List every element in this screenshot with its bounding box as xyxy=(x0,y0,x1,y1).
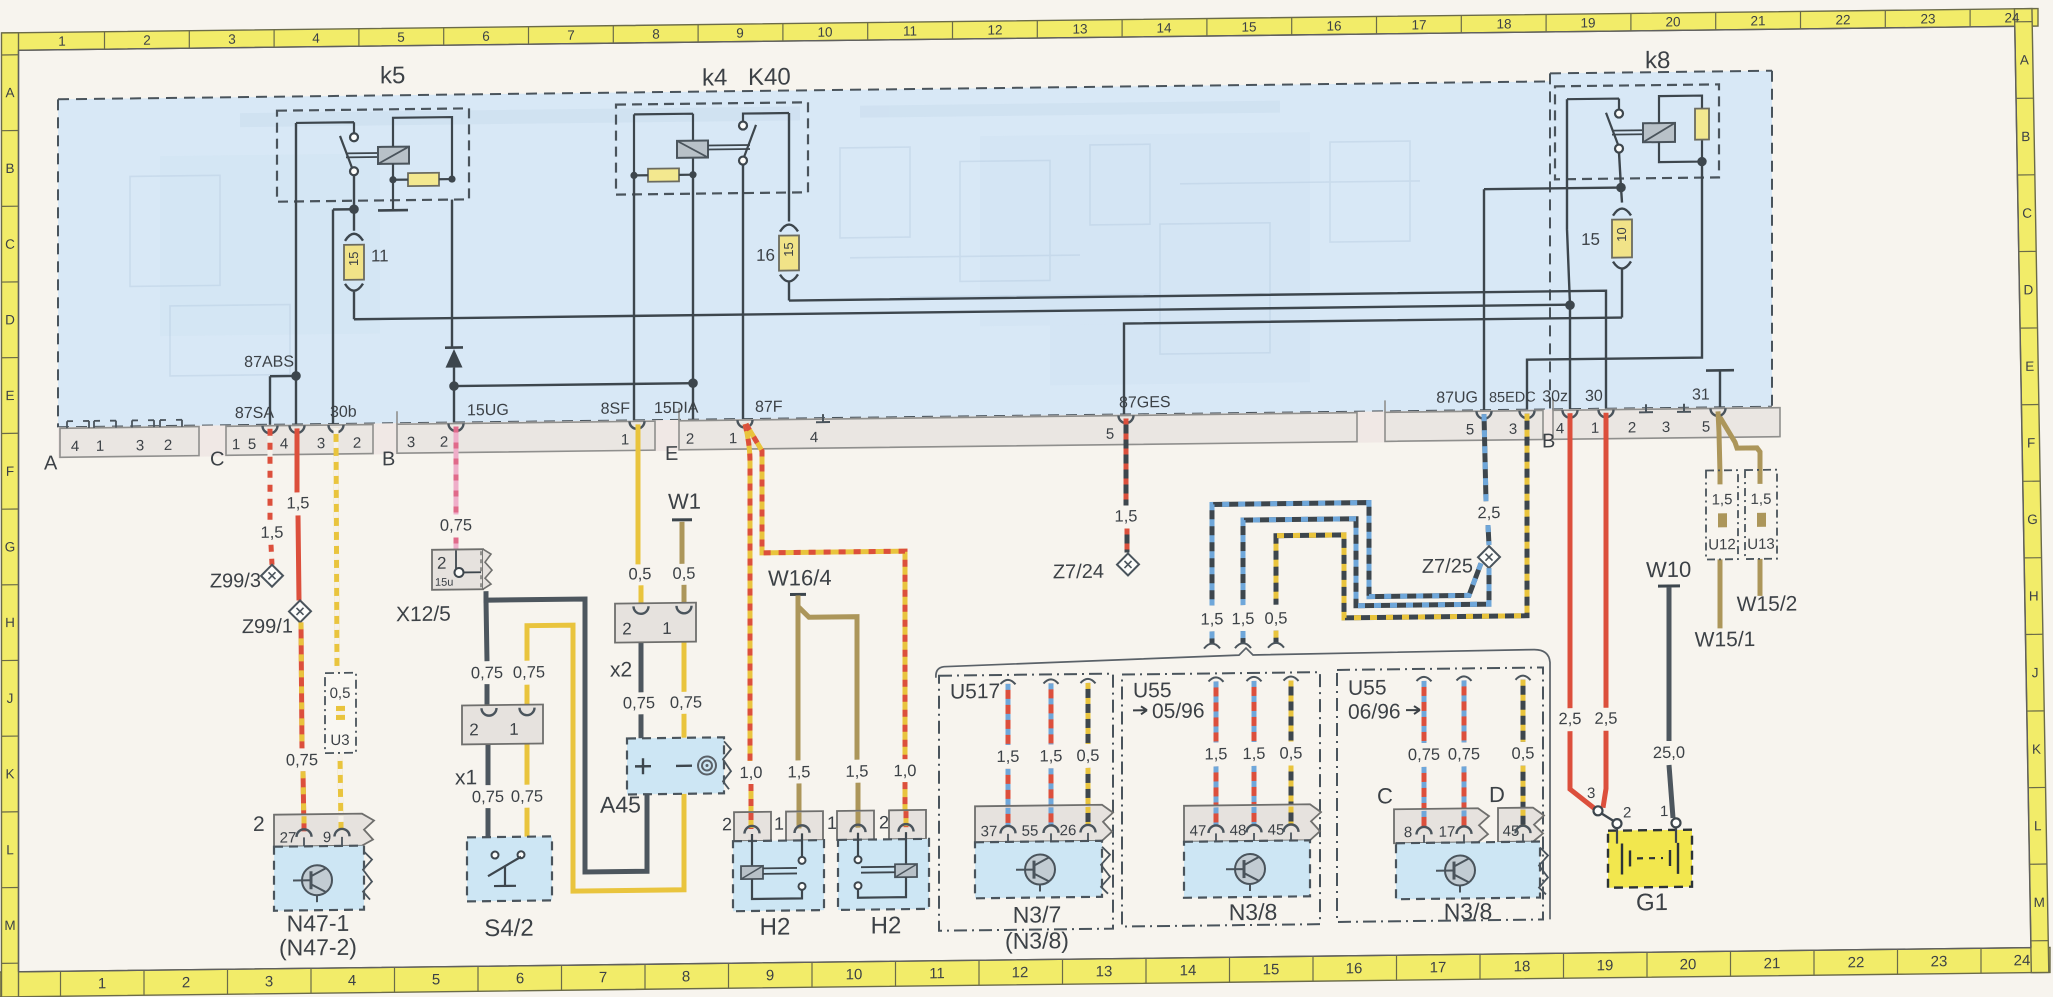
svg-text:x1: x1 xyxy=(455,766,477,789)
connector x2 xyxy=(610,603,696,682)
svg-text:U55: U55 xyxy=(1348,676,1387,699)
svg-text:23: 23 xyxy=(1931,953,1948,970)
svg-text:2: 2 xyxy=(686,431,694,448)
svg-text:24: 24 xyxy=(2014,952,2031,969)
svg-text:U3: U3 xyxy=(330,732,349,749)
svg-text:4: 4 xyxy=(1556,420,1564,437)
svg-text:3: 3 xyxy=(1509,421,1517,438)
wire W16/4 tan branch left 1.5 xyxy=(798,595,799,827)
relay K40 switch contact xyxy=(708,113,789,165)
svg-text:D: D xyxy=(5,312,15,327)
svg-text:22: 22 xyxy=(1848,954,1865,971)
frame left band xyxy=(2,33,19,997)
svg-text:3: 3 xyxy=(1587,785,1595,802)
svg-text:1: 1 xyxy=(774,814,784,834)
value label 1,5 (C4) xyxy=(287,494,310,512)
svg-text:0,75: 0,75 xyxy=(511,787,543,805)
svg-text:0,75: 0,75 xyxy=(1448,745,1480,763)
label G1 xyxy=(1636,889,1668,916)
frame bottom band xyxy=(0,947,2050,997)
svg-text:N3/8: N3/8 xyxy=(1229,899,1278,926)
svg-text:E: E xyxy=(2025,359,2034,374)
svg-text:5: 5 xyxy=(1702,418,1710,435)
wire U13 segment 1.5 xyxy=(1758,471,1763,596)
wire k5 fuse output bus xyxy=(354,305,1570,320)
svg-text:14: 14 xyxy=(1180,962,1197,979)
terminal label 87F xyxy=(755,399,783,416)
wire k8 switch common / junction 87UG xyxy=(1484,153,1625,412)
svg-text:5: 5 xyxy=(1106,426,1114,443)
svg-text:9: 9 xyxy=(766,967,774,984)
svg-text:2: 2 xyxy=(1628,419,1636,436)
terminal 31 antenna symbol xyxy=(1706,370,1734,408)
svg-text:U55: U55 xyxy=(1133,679,1172,702)
svg-text:3: 3 xyxy=(136,437,144,454)
svg-text:11: 11 xyxy=(371,246,389,265)
svg-text:0,75: 0,75 xyxy=(623,694,655,712)
svg-text:1: 1 xyxy=(96,438,104,455)
module box U55 06/96 xyxy=(1337,667,1543,921)
label N3/7 xyxy=(1013,901,1062,928)
svg-text:5: 5 xyxy=(397,30,405,45)
svg-text:26: 26 xyxy=(1060,822,1077,839)
svg-text:M: M xyxy=(4,918,15,933)
terminal label 30 xyxy=(1585,388,1603,405)
svg-text:23: 23 xyxy=(1920,11,1935,26)
svg-text:06/96: 06/96 xyxy=(1348,700,1401,724)
svg-text:7: 7 xyxy=(567,28,575,43)
value label 2,5 (87UG) xyxy=(1478,504,1501,522)
svg-text:1: 1 xyxy=(621,431,629,448)
svg-text:2: 2 xyxy=(143,33,151,48)
svg-text:21: 21 xyxy=(1764,955,1781,972)
svg-text:15: 15 xyxy=(1581,230,1600,249)
svg-text:3: 3 xyxy=(407,434,415,451)
value label 0,75 (x1.2) xyxy=(471,664,503,682)
svg-text:Z99/1: Z99/1 xyxy=(242,615,293,638)
svg-text:8SF: 8SF xyxy=(601,400,631,417)
svg-text:1,5: 1,5 xyxy=(1232,610,1255,628)
svg-text:M: M xyxy=(2034,895,2045,910)
frame right band xyxy=(2014,9,2048,973)
wire U12 segment 1.5 xyxy=(1718,471,1723,628)
svg-text:2: 2 xyxy=(469,720,478,739)
svg-text:S4/2: S4/2 xyxy=(484,915,533,943)
svg-text:2: 2 xyxy=(437,554,446,573)
svg-text:W15/1: W15/1 xyxy=(1695,628,1756,652)
relay k8 zone dashed outline xyxy=(1550,71,1772,410)
wire U55b.1 red/blue 0.75 xyxy=(1417,677,1432,825)
connector C label xyxy=(1377,783,1393,808)
svg-text:2: 2 xyxy=(182,974,190,991)
svg-text:13: 13 xyxy=(1072,21,1087,36)
STRIP xyxy=(44,386,1780,475)
value label 1,5 (87GES) xyxy=(1115,507,1138,525)
node 87ABS xyxy=(270,372,300,425)
svg-text:A: A xyxy=(5,85,14,100)
relay k8 switch contact xyxy=(1567,98,1643,153)
value label 0,75 (U55b.2) xyxy=(1448,745,1480,763)
relay k5 resistor xyxy=(389,173,455,187)
label N3/8 a xyxy=(1229,899,1278,926)
value label 0,5 (U55b.3) xyxy=(1512,745,1535,763)
wire 85EDC black/yellow 0.5 xyxy=(1268,414,1527,648)
svg-text:B: B xyxy=(2021,129,2030,144)
svg-text:3: 3 xyxy=(265,973,273,990)
frame top band cell ticks xyxy=(105,9,1971,49)
svg-text:x2: x2 xyxy=(610,658,632,681)
relay k4 resistor xyxy=(630,168,696,182)
value label 1,5 (U55a.1) xyxy=(1205,745,1228,763)
svg-text:9: 9 xyxy=(736,26,744,41)
wire 87GES black/red 1.5 xyxy=(1126,418,1127,552)
label H2 right xyxy=(871,912,902,939)
transistor symbol N3/8 b xyxy=(1436,855,1475,892)
svg-text:K: K xyxy=(5,766,14,781)
svg-text:13: 13 xyxy=(1096,963,1113,980)
svg-text:27: 27 xyxy=(280,829,297,846)
svg-text:1: 1 xyxy=(58,34,66,49)
value label 1,5 (H2 left) xyxy=(788,763,811,781)
svg-text:45: 45 xyxy=(1268,822,1285,839)
wire K40 fuse output to terminal 30 xyxy=(789,291,1606,420)
svg-text:55: 55 xyxy=(1022,823,1039,840)
svg-text:G: G xyxy=(2027,512,2038,527)
fuse box X12/5 xyxy=(396,549,492,626)
wire 30 red 2.5 xyxy=(1603,413,1606,808)
value label 0,5 (W1) xyxy=(673,565,696,583)
value label 25,0 (W10) xyxy=(1653,744,1685,762)
splice Z99/3 xyxy=(210,565,283,593)
svg-text:0,5: 0,5 xyxy=(1280,744,1303,762)
splice Z7/24 xyxy=(1053,553,1139,583)
value label 1,5 (87SA) xyxy=(261,524,284,542)
svg-text:4: 4 xyxy=(810,429,818,446)
svg-text:6: 6 xyxy=(516,970,524,987)
connector strip N3/8 b C xyxy=(1394,808,1489,848)
svg-text:1: 1 xyxy=(1591,420,1599,437)
fuse 15 (10A) in k8 branch xyxy=(1612,208,1632,317)
connector strip N3/7 xyxy=(975,805,1113,848)
value label 0,5 (85EDC) xyxy=(1265,610,1288,628)
svg-text:D: D xyxy=(2024,282,2034,297)
svg-text:F: F xyxy=(2027,435,2035,450)
frame top band numbers xyxy=(58,10,2020,49)
svg-text:J: J xyxy=(7,691,14,706)
svg-text:21: 21 xyxy=(1750,13,1765,28)
wire U517.2 red/blue 1.5 xyxy=(1044,679,1059,825)
svg-text:H2: H2 xyxy=(760,914,791,941)
svg-text:Z7/24: Z7/24 xyxy=(1053,561,1104,584)
svg-text:G: G xyxy=(5,539,16,554)
svg-text:17: 17 xyxy=(1411,17,1426,32)
battery G1 xyxy=(1608,803,1692,888)
relay k5 coil wiring xyxy=(393,117,452,209)
svg-text:k8: k8 xyxy=(1645,47,1670,74)
svg-text:2,5: 2,5 xyxy=(1559,710,1582,728)
svg-text:H: H xyxy=(5,615,15,630)
relay k4/K40 labels xyxy=(702,64,791,92)
terminal label 31 xyxy=(1692,386,1710,403)
svg-text:87SA: 87SA xyxy=(235,405,274,422)
transistor symbol N47 xyxy=(293,865,332,902)
value label 1,5 (H2 right) xyxy=(846,763,869,781)
value label 1,5 (U517.2) xyxy=(1040,747,1063,765)
wire U55a.1 red/blue 1.5 xyxy=(1209,677,1224,823)
module box U517 xyxy=(939,674,1113,931)
label 87ABS xyxy=(244,353,294,371)
svg-text:05/96: 05/96 xyxy=(1152,700,1205,724)
diode in 15UG branch xyxy=(445,199,463,385)
svg-text:0,75: 0,75 xyxy=(472,788,504,806)
control module N47-1 box xyxy=(274,846,372,911)
coupler U13 xyxy=(1745,470,1777,559)
svg-text:18: 18 xyxy=(1496,16,1511,31)
relay k4 coil xyxy=(677,141,708,158)
svg-text:Z99/3: Z99/3 xyxy=(210,570,261,593)
svg-text:L: L xyxy=(2034,818,2042,833)
connector strip N47 xyxy=(274,814,374,852)
relay k8 resistor (vertical) xyxy=(1695,108,1709,139)
svg-text:1: 1 xyxy=(662,619,671,638)
wire U55b.3 black/yellow 0.5 xyxy=(1516,676,1531,824)
terminal label 8SF xyxy=(601,400,631,417)
wire x1.1 yellow loop to A45 minus xyxy=(527,624,684,892)
fuse 15 designator xyxy=(1581,230,1600,249)
svg-text:11: 11 xyxy=(903,23,917,38)
svg-text:4: 4 xyxy=(280,436,288,453)
wire 87F left yellow/red 1.0 xyxy=(745,424,751,828)
svg-text:30b: 30b xyxy=(330,404,357,421)
svg-text:1,5: 1,5 xyxy=(287,494,310,512)
svg-text:k4: k4 xyxy=(702,64,727,91)
value label 1,0 (H2 right) xyxy=(894,762,917,780)
diagnosis unit A45 xyxy=(627,737,731,794)
label A45 xyxy=(600,791,641,817)
svg-text:K40: K40 xyxy=(748,64,791,92)
wire U55a.2 red/blue 1.5 xyxy=(1247,677,1262,823)
relay k5 coil ground xyxy=(378,209,408,212)
connector block B xyxy=(382,408,655,470)
relay k8 coil xyxy=(1643,123,1675,142)
value label 0,5 (U517.3) xyxy=(1077,747,1100,765)
svg-text:B: B xyxy=(1542,430,1555,452)
fuse 11 rating text xyxy=(346,251,361,266)
value label 0,75 (S4/2 left) xyxy=(472,788,504,806)
fuse 16 designator xyxy=(756,246,775,265)
wire X12/5 to x1.2 dark loop xyxy=(486,589,647,873)
wire U517.3 black/yellow 0.5 xyxy=(1081,679,1096,825)
fuse 11 (15A) in k5 branch xyxy=(344,175,364,319)
wire U517.1 red/blue 1.5 xyxy=(1001,680,1016,826)
svg-text:4: 4 xyxy=(312,31,320,46)
label (N3/8) xyxy=(1005,927,1069,954)
svg-text:D: D xyxy=(1489,782,1505,807)
value label 0,75 (x1.1) xyxy=(513,663,545,681)
svg-text:G1: G1 xyxy=(1636,889,1668,916)
svg-text:1,5: 1,5 xyxy=(1751,491,1772,508)
svg-text:U13: U13 xyxy=(1747,536,1775,553)
control module N3/8 a box xyxy=(1184,840,1310,898)
relay k8 coil wiring xyxy=(1659,96,1706,166)
value label 2,5 (30) xyxy=(1595,710,1618,728)
value label 1,5 (branch B) xyxy=(1232,610,1255,628)
connector block A xyxy=(44,420,199,475)
frame bottom band numbers xyxy=(98,952,2031,992)
terminal label 87UG xyxy=(1436,389,1478,407)
svg-text:5: 5 xyxy=(248,436,256,453)
splice Z99/1 xyxy=(242,600,311,638)
value label 0,75 (15UG) xyxy=(440,516,472,534)
svg-text:3: 3 xyxy=(317,435,325,452)
control module N3/8 b box xyxy=(1396,841,1548,899)
svg-text:2: 2 xyxy=(253,813,265,836)
svg-text:10: 10 xyxy=(846,966,863,983)
relay k8 label xyxy=(1645,47,1670,74)
svg-text:20: 20 xyxy=(1680,956,1697,973)
wire x1.2 feed dark 0.75 xyxy=(486,600,487,708)
svg-text:A: A xyxy=(2020,52,2029,67)
svg-text:2,5: 2,5 xyxy=(1595,710,1618,728)
connector block E xyxy=(665,400,1357,465)
splice Z7/25 xyxy=(1422,546,1500,578)
svg-text:2: 2 xyxy=(622,619,631,638)
junction 30z / k5 bus xyxy=(1566,302,1573,309)
wire x1.2 to S4/2 dark 0.75 xyxy=(486,723,491,837)
wire x2.1 to A45 minus yellow 0.75 xyxy=(682,621,687,738)
svg-text:1: 1 xyxy=(827,813,837,833)
wire 87F vertical xyxy=(742,165,744,420)
wire W16/4 tan branch right 1.5 xyxy=(798,606,858,828)
wire 8SF yellow 0.5 xyxy=(638,424,641,605)
antenna W10 xyxy=(1646,557,1691,587)
connector D label xyxy=(1489,782,1505,807)
svg-text:2: 2 xyxy=(1623,804,1631,821)
value label 0,5 (U55a.3) xyxy=(1280,744,1303,762)
svg-text:15UG: 15UG xyxy=(467,402,509,420)
svg-text:15: 15 xyxy=(346,251,361,266)
svg-text:8: 8 xyxy=(682,968,690,985)
svg-text:20: 20 xyxy=(1665,14,1680,29)
svg-text:9: 9 xyxy=(323,829,331,846)
terminal label 15DIA xyxy=(654,400,699,418)
svg-text:1,5: 1,5 xyxy=(1040,747,1063,765)
svg-text:17: 17 xyxy=(1439,824,1456,841)
wire terminal 31 tan to U12/U13 xyxy=(1718,411,1760,474)
svg-text:16: 16 xyxy=(756,246,775,265)
relay k5 switch contact xyxy=(296,122,378,176)
value label 1,5 (branch A) xyxy=(1201,610,1224,628)
svg-text:F: F xyxy=(6,464,14,479)
wire 87UG black/blue 2.5 xyxy=(1484,414,1489,545)
wire 85EDC from k8 coil xyxy=(1527,162,1702,411)
svg-text:E: E xyxy=(5,388,14,403)
svg-text:1,5: 1,5 xyxy=(1205,745,1228,763)
svg-text:X12/5: X12/5 xyxy=(396,603,451,627)
relay k8 inner dashed box xyxy=(1555,84,1719,179)
wire W1 tan 0.5 xyxy=(682,522,684,605)
connector strip N3/8 b D xyxy=(1498,807,1544,847)
svg-text:16: 16 xyxy=(1346,960,1363,977)
svg-text:3: 3 xyxy=(228,32,236,47)
svg-text:C: C xyxy=(2022,206,2032,221)
wire x2.2 to A45 plus dark 0.75 xyxy=(639,621,644,738)
svg-text:H2: H2 xyxy=(871,912,902,939)
coupler U3 xyxy=(325,673,356,753)
svg-text:5: 5 xyxy=(1466,421,1474,438)
wire Z7/25 branch A black/blue 1.5 xyxy=(1204,501,1481,648)
antenna W15/1 label xyxy=(1695,628,1756,652)
svg-text:1: 1 xyxy=(98,975,106,992)
terminal label 87SA xyxy=(235,405,274,422)
svg-text:0,5: 0,5 xyxy=(1077,747,1100,765)
svg-text:0,75: 0,75 xyxy=(286,751,318,769)
relay k4 dashed box xyxy=(616,102,808,194)
connector block B right xyxy=(1542,396,1780,453)
svg-text:A: A xyxy=(44,452,58,474)
value label 1,5 (U517.1) xyxy=(997,748,1020,766)
horn H2 right box xyxy=(838,832,929,910)
svg-text:1,5: 1,5 xyxy=(1115,507,1138,525)
terminal label 30z xyxy=(1542,388,1568,405)
antenna W1 xyxy=(668,489,701,520)
svg-text:24: 24 xyxy=(2004,10,2020,25)
svg-text:W1: W1 xyxy=(668,489,701,514)
svg-text:15: 15 xyxy=(1241,19,1256,34)
svg-text:0,5: 0,5 xyxy=(1512,745,1535,763)
svg-text:3: 3 xyxy=(1662,419,1670,436)
frame bottom band cell ticks xyxy=(61,948,1982,996)
wire U55b.2 red/blue 0.75 xyxy=(1457,676,1472,824)
value label 1,5 (U55a.2) xyxy=(1243,745,1266,763)
svg-text:1: 1 xyxy=(232,436,240,453)
svg-text:85EDC: 85EDC xyxy=(1489,390,1536,407)
svg-text:Z7/25: Z7/25 xyxy=(1422,555,1473,578)
svg-text:14: 14 xyxy=(1156,20,1172,35)
value label 0,5 (8SF) xyxy=(629,565,652,583)
switch S4/2 xyxy=(467,836,552,901)
control module N3/7 box xyxy=(975,841,1110,899)
fuse 11 designator xyxy=(371,246,389,265)
svg-text:0,75: 0,75 xyxy=(1408,746,1440,764)
svg-text:B: B xyxy=(382,448,395,470)
svg-text:8: 8 xyxy=(652,27,660,42)
svg-text:K: K xyxy=(2032,742,2041,757)
antenna W15/2 label xyxy=(1737,592,1798,616)
wire U55a.3 black/yellow 0.5 xyxy=(1284,676,1299,822)
svg-text:1,5: 1,5 xyxy=(1201,610,1224,628)
svg-text:J: J xyxy=(2032,665,2039,680)
transistor symbol N3/7 xyxy=(1016,854,1055,891)
svg-text:0,75: 0,75 xyxy=(440,516,472,534)
wire Z7/25 branch B black/blue 1.5 xyxy=(1235,517,1489,648)
svg-text:37: 37 xyxy=(981,823,998,840)
svg-text:2: 2 xyxy=(440,434,448,451)
svg-text:k5: k5 xyxy=(380,62,405,89)
wire 30b yellow/white 0.5 xyxy=(336,428,341,832)
svg-text:0,75: 0,75 xyxy=(471,664,503,682)
svg-text:4: 4 xyxy=(71,438,79,455)
INTERNAL WIRING OF CONTROL UNIT xyxy=(244,97,1734,437)
svg-text:H: H xyxy=(2029,589,2039,604)
svg-text:2: 2 xyxy=(353,435,361,452)
wire W10 black 25.0 xyxy=(1669,587,1673,818)
svg-text:18: 18 xyxy=(1514,958,1531,975)
horn H2 right connector pins xyxy=(827,810,926,840)
horn H2 left connector pins xyxy=(722,811,823,841)
value label 2,5 (30z) xyxy=(1559,710,1582,728)
value label 0,75 (N47 pin27) xyxy=(286,751,318,769)
